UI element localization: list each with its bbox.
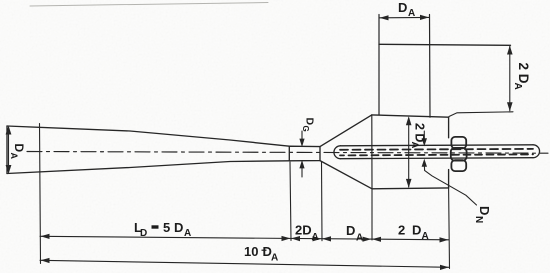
dimension 2D_A right: dim line — [509, 46, 511, 111]
suction pipe hidden bore upper dashed line — [340, 148, 533, 151]
top box top edge with extension to right dim — [379, 44, 511, 45]
svg-text:5: 5 — [163, 220, 170, 235]
centerline (dash-dot axis) — [27, 152, 548, 154]
svg-text:A: A — [512, 83, 523, 90]
diffuser diverging top line — [320, 115, 372, 147]
svg-text:D: D — [304, 118, 316, 126]
chained dimension row: dim line — [40, 236, 449, 240]
extension line at throat entry (x=290) — [290, 162, 291, 241]
label 10 D_A (overall) — [244, 244, 278, 264]
dimension D_N: upper arrow line — [423, 131, 425, 143]
converging nozzle cone: top edge — [7, 126, 289, 146]
extension line at throat exit (x=321.5) — [321, 162, 324, 241]
scan artifact top edge line — [30, 3, 268, 7]
svg-text:G: G — [301, 126, 310, 132]
svg-text:A: A — [408, 8, 415, 19]
svg-text:D: D — [346, 223, 355, 238]
top box left edge — [378, 15, 380, 115]
dimension 2D_A right: arrowheads — [507, 46, 513, 112]
svg-text:A: A — [9, 153, 19, 160]
converging nozzle cone: inlet face — [6, 126, 8, 174]
svg-text:A: A — [184, 228, 191, 239]
svg-text:A: A — [356, 233, 363, 244]
label D_N (rotated) — [473, 206, 492, 223]
chained dimension row: end + bowtie arrowheads — [41, 234, 449, 243]
mixing chamber right wall upper segment — [448, 117, 450, 138]
svg-text:D: D — [412, 223, 421, 238]
svg-text:2 D: 2 D — [413, 123, 427, 142]
svg-text:2 D: 2 D — [516, 63, 531, 84]
label D_A at inlet (rotated) — [9, 144, 26, 160]
dimension D_A top: dim line — [379, 16, 430, 18]
dimension D_G: leader lines — [301, 131, 303, 177]
hex gland nut top flat — [451, 137, 466, 149]
suction pipe top edge — [341, 145, 534, 146]
dimension D_A inlet: dim line — [8, 130, 10, 170]
dimension D_N: leader to label — [424, 163, 476, 205]
extension line at L_D origin (x=40) — [40, 124, 41, 264]
svg-text:10: 10 — [244, 244, 258, 259]
hex gland nut bottom flat — [451, 160, 466, 171]
label 2D_A (first chained segment) — [295, 223, 319, 244]
svg-text:D: D — [140, 228, 147, 239]
svg-text:A: A — [409, 142, 420, 149]
svg-text:D: D — [12, 144, 26, 153]
dimension D_A top: arrowheads — [380, 15, 430, 21]
svg-text:2D: 2D — [295, 223, 312, 238]
svg-text:D: D — [477, 206, 492, 215]
extension line below chamber right (x=448.6) — [448, 188, 451, 269]
label 2 D_A right side (rotated) — [512, 63, 531, 90]
dimension D_A inlet: arrowheads — [6, 126, 12, 175]
svg-text:A: A — [422, 231, 429, 242]
overall dimension 10 D_A: arrowheads — [41, 258, 450, 270]
svg-text:A: A — [312, 232, 319, 243]
extension line below chamber left (x=372) — [371, 189, 373, 240]
dimension 2D_A inside chamber: dim line — [408, 118, 410, 187]
label 2 D_A (third chained segment) — [398, 223, 429, 243]
top box right edge — [429, 15, 432, 118]
suction pipe hidden bore lower dashed line — [340, 154, 533, 155]
label D_A above top box — [398, 0, 415, 19]
svg-text:D: D — [174, 220, 183, 235]
svg-text:2: 2 — [398, 223, 405, 238]
label D_A (second chained segment) — [346, 223, 363, 244]
dimension 2D_A right: bottom extension line — [449, 112, 513, 117]
mixing chamber right wall lower segment — [448, 170, 450, 188]
label L_D = 5 D_A — [134, 220, 191, 239]
suction pipe bottom edge — [341, 158, 534, 159]
converging nozzle cone: bottom edge — [7, 161, 289, 174]
label 2 D_A inside chamber (rotated) — [409, 123, 427, 149]
svg-text:N: N — [473, 216, 484, 223]
dimension D_G: upper arrow — [299, 139, 304, 169]
suction pipe rounded right cap — [533, 145, 540, 158]
dimension D_N: arrowheads — [422, 138, 427, 167]
overall dimension 10 D_A: dim line — [40, 260, 450, 267]
svg-text:D: D — [398, 0, 407, 15]
diffuser diverging bottom line — [320, 161, 372, 189]
mixing chamber left wall — [371, 115, 373, 189]
mixing chamber bottom edge — [372, 187, 449, 190]
suction pipe rounded left cap — [334, 146, 341, 159]
hex gland nut middle flat — [451, 148, 467, 161]
svg-text:A: A — [271, 253, 278, 264]
dimension 2D_A inside chamber: arrowheads — [406, 116, 412, 188]
label D_G at throat (rotated) — [301, 118, 315, 132]
throat tube — [289, 146, 320, 161]
mixing chamber top edge — [372, 115, 449, 117]
